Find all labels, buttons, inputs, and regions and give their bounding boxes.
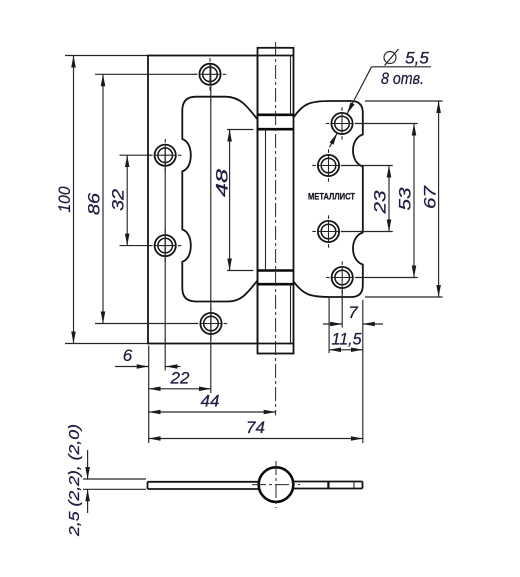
dimension 22 — [149, 388, 211, 390]
extension line hole column 6mm — [164, 148, 166, 371]
leader diameter 5,5 shelf — [372, 66, 432, 68]
hole T top left-leaf — [194, 58, 226, 90]
dimension 7 — [323, 323, 342, 325]
extension line right leaf edge down — [362, 300, 364, 443]
svg-text:5,5: 5,5 — [405, 49, 429, 68]
dimension 86 — [102, 74, 104, 323]
barrel bottom edge line (leaf bottom) — [258, 343, 294, 345]
hole D right-leaf bottom — [326, 261, 358, 293]
barrel body — [258, 48, 294, 354]
extension line hole L2 row — [120, 245, 152, 247]
hole C right-leaf — [312, 215, 344, 247]
extension line hole column 22mm — [210, 64, 212, 393]
dimension 67 — [438, 101, 440, 297]
extension line leaf top — [65, 55, 148, 57]
extension line hole D column — [341, 289, 343, 328]
svg-text:МЕТАЛЛИСТ: МЕТАЛЛИСТ — [308, 192, 355, 203]
svg-text:2,5 (2,2), (2,0): 2,5 (2,2), (2,0) — [66, 424, 83, 537]
svg-text:7: 7 — [348, 303, 358, 322]
svg-text:22: 22 — [170, 369, 190, 388]
svg-text:32: 32 — [109, 188, 128, 211]
barrel top edge line (leaf top) — [258, 55, 294, 57]
extension line left leaf edge down — [148, 346, 150, 444]
svg-text:74: 74 — [246, 418, 265, 437]
side view centerline vertical — [275, 461, 277, 508]
extension line hole L1 row — [120, 154, 152, 156]
svg-text:11,5: 11,5 — [332, 330, 363, 349]
dimension 44 — [149, 411, 276, 413]
barrel inner line bottom knuckle — [290, 284, 292, 343]
svg-text:67: 67 — [421, 185, 440, 209]
extension line hole BC column — [328, 297, 330, 353]
svg-text:86: 86 — [84, 192, 103, 215]
svg-text:53: 53 — [395, 187, 414, 211]
right leaf outline — [294, 101, 363, 297]
left leaf cutout contour — [182, 97, 257, 302]
barrel pin centerline — [275, 42, 277, 416]
dimension 6 — [115, 366, 149, 368]
leader line with arrows — [347, 67, 372, 114]
hole Bo bottom left-leaf — [195, 307, 227, 339]
barrel inner line top knuckle — [290, 56, 292, 115]
svg-text:100: 100 — [55, 186, 74, 212]
dimension 74 — [149, 438, 363, 440]
barrel inner line central knuckle — [265, 129, 267, 270]
svg-text:48: 48 — [213, 168, 232, 197]
hole B right-leaf — [312, 149, 344, 181]
extension line hole T row — [95, 73, 197, 75]
svg-text:6: 6 — [123, 346, 133, 365]
extension line leaf bottom — [65, 343, 148, 345]
label diameter 5,5 — [384, 49, 429, 68]
extension tick 48 bottom — [227, 270, 254, 272]
side thickness extension top — [83, 478, 146, 480]
hole L1 — [149, 139, 181, 171]
extension tick 48 top — [227, 129, 254, 131]
hole A right-leaf top — [326, 107, 358, 139]
extension line hole B row — [341, 165, 393, 167]
extension line right leaf bottom — [365, 296, 443, 298]
side view right plate — [293, 482, 363, 489]
left leaf outline — [148, 56, 258, 344]
dimension 48 — [229, 130, 231, 271]
barrel knuckle divider lower pair — [258, 269, 294, 272]
extension line hole D row — [356, 277, 418, 279]
extension line hole C row — [341, 231, 393, 233]
extension line hole Bo row — [95, 323, 198, 325]
dimension 32 — [126, 155, 128, 245]
side view barrel circle — [259, 467, 294, 502]
dimension 11,5 — [329, 349, 363, 351]
dimension 53 — [413, 124, 415, 278]
barrel knuckle divider upper pair — [258, 114, 294, 117]
svg-text:23: 23 — [371, 190, 390, 215]
side thickness extension bottom — [83, 488, 146, 490]
extension line right leaf top — [365, 100, 443, 102]
dimension 100 — [73, 56, 75, 344]
extension line hole A row — [356, 123, 418, 125]
hole L2 — [149, 229, 181, 261]
svg-text:8 отв.: 8 отв. — [381, 69, 424, 88]
dimension 23 — [388, 166, 390, 232]
side view centerline horizontal — [252, 484, 300, 486]
side view hole bar — [327, 482, 329, 489]
side view inner line — [353, 482, 355, 489]
side view left plate — [148, 482, 260, 489]
side thickness arrows — [87, 450, 89, 479]
svg-text:44: 44 — [201, 392, 220, 411]
